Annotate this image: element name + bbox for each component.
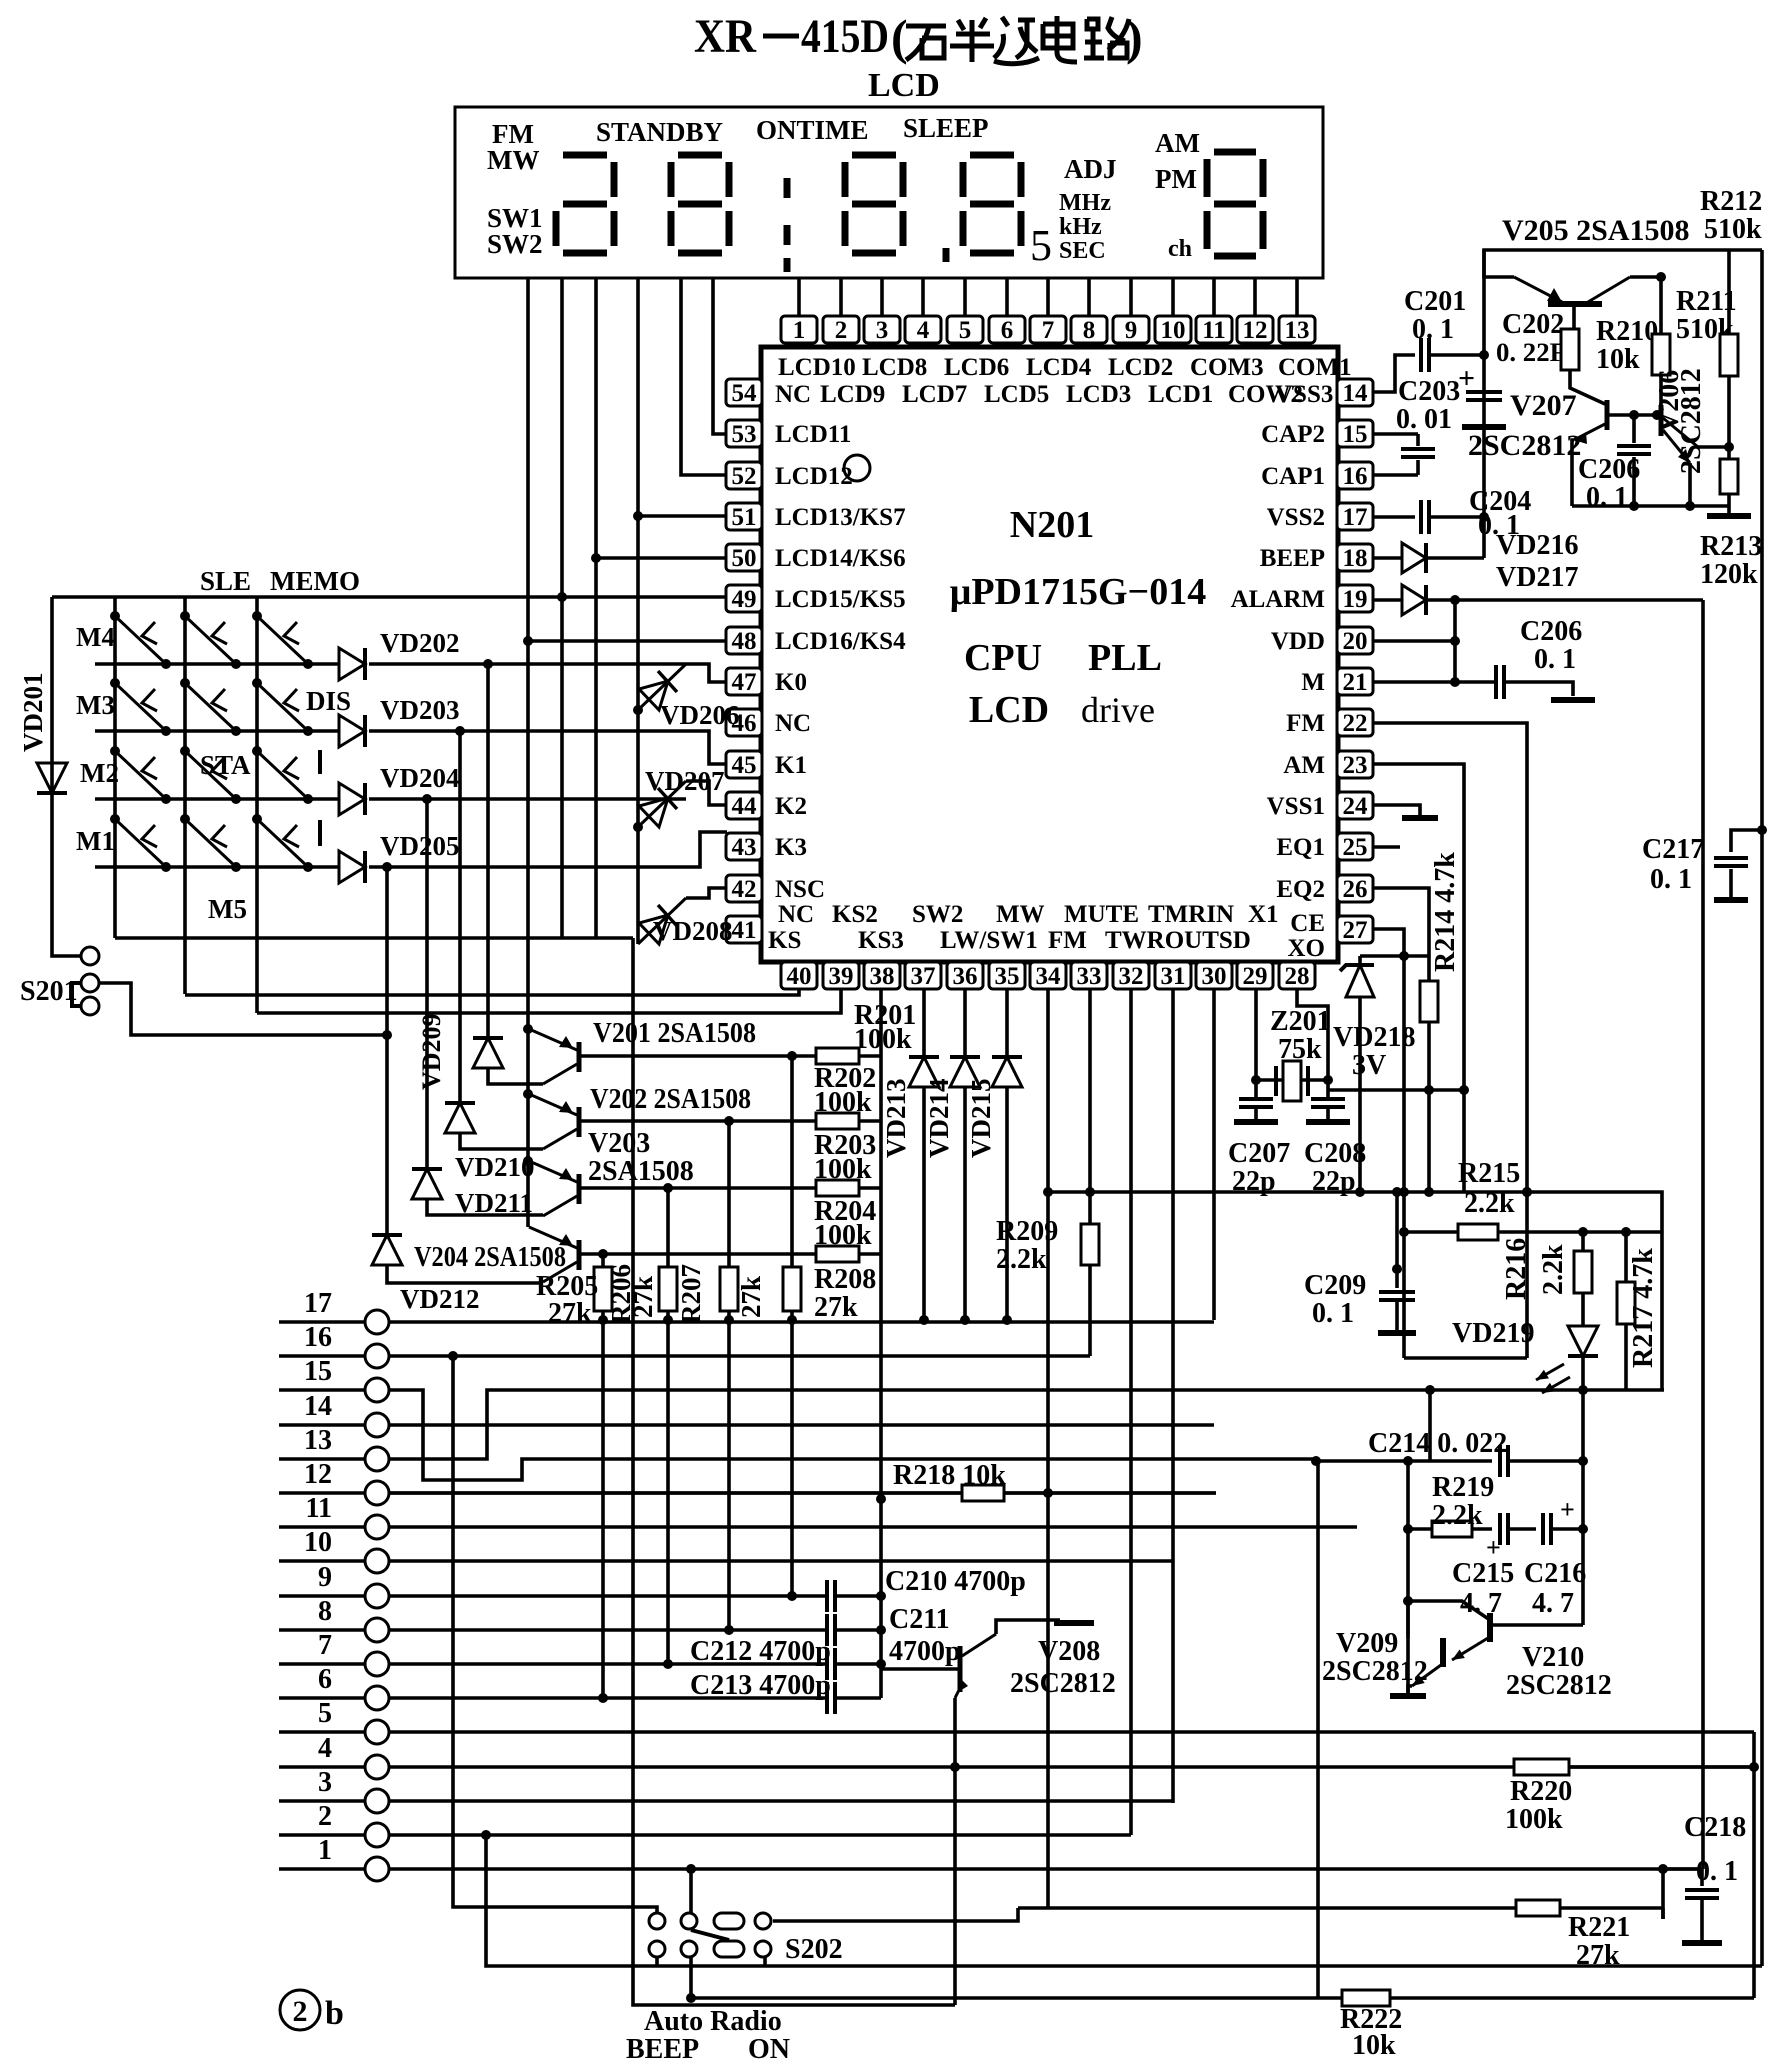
node pin48 junction	[523, 636, 533, 646]
node C216 right	[1578, 1524, 1588, 1534]
svg-text:12: 12	[1243, 317, 1268, 344]
pin 50 box	[726, 544, 762, 572]
svg-text:7: 7	[1042, 317, 1055, 344]
wire LCD to pin 12	[1253, 278, 1257, 316]
svg-text:V209: V209	[1336, 1628, 1398, 1659]
svg-text:V207: V207	[1510, 389, 1577, 422]
wire VD218 stub	[1358, 956, 1362, 965]
connector circle 5	[365, 1720, 389, 1744]
node S202 row1 tap	[686, 1864, 696, 1874]
capacitor C206a	[1617, 446, 1651, 454]
svg-text:V204 2SA1508: V204 2SA1508	[414, 1242, 566, 1273]
resistor R216	[1574, 1251, 1592, 1293]
svg-text:0. 1: 0. 1	[1412, 314, 1454, 345]
node V206 base	[1652, 410, 1662, 420]
wire bus 1192	[1048, 1192, 1662, 1390]
S202 contact circle 689,1921	[681, 1913, 697, 1929]
svg-text:LCD: LCD	[969, 689, 1049, 731]
IC pin52 circle mark	[844, 455, 870, 481]
svg-text:MUTE: MUTE	[1064, 901, 1139, 928]
svg-text:SLE: SLE	[200, 566, 251, 596]
wire C217 bottom	[1729, 869, 1733, 898]
wire pin 27 to VD218	[1372, 929, 1404, 1358]
svg-text:TMRIN: TMRIN	[1148, 901, 1234, 928]
hanzi ban(half)	[950, 18, 994, 62]
svg-text:C208: C208	[1304, 1138, 1366, 1169]
node pin50 junction	[591, 553, 601, 563]
wire matrix row M2	[95, 797, 339, 801]
wire left vertical to S201	[52, 597, 80, 956]
diode VD208	[638, 898, 686, 944]
svg-text:V205 2SA1508: V205 2SA1508	[1502, 214, 1690, 247]
svg-text:27k: 27k	[548, 1298, 592, 1329]
node C214 left	[1403, 1456, 1413, 1466]
svg-text:100k: 100k	[814, 1087, 872, 1118]
wire row 12 right	[389, 1491, 1216, 1495]
svg-text:LCD13/KS7: LCD13/KS7	[775, 504, 906, 531]
svg-text:4: 4	[917, 317, 930, 344]
wire C212 link	[837, 1662, 881, 1666]
svg-text:VD212: VD212	[400, 1284, 480, 1314]
svg-text:415D: 415D	[801, 10, 889, 63]
svg-text:M: M	[1301, 669, 1325, 696]
wire LCD to pin 10	[1171, 278, 1175, 316]
svg-text:R217 4.7k: R217 4.7k	[1628, 1248, 1659, 1368]
capacitor C207	[1239, 1099, 1273, 1107]
svg-text:VSS2: VSS2	[1267, 504, 1325, 531]
wire pin 32 column	[1129, 988, 1133, 1835]
wire R211 R213 column	[1727, 376, 1731, 459]
wire V203 base line	[579, 1186, 816, 1190]
svg-text:R208: R208	[814, 1264, 876, 1295]
svg-text:C214 0. 022: C214 0. 022	[1368, 1428, 1507, 1459]
wire VD210 column	[458, 731, 462, 1103]
pin 52 box	[726, 462, 762, 490]
wire R211 bottom to V206	[1659, 375, 1663, 407]
wire column row16 to S202	[453, 1356, 657, 1913]
capacitor C217 end bar	[1714, 897, 1748, 903]
wire pin 15 stub	[1372, 432, 1418, 436]
wire crystal line	[1256, 1078, 1328, 1082]
node V208 row4	[950, 1762, 960, 1772]
svg-text:28: 28	[1285, 963, 1310, 990]
wire VD211 column	[425, 799, 429, 1169]
svg-text:VD202: VD202	[380, 628, 460, 658]
connector circle 17	[365, 1310, 389, 1334]
transistor V203	[529, 1161, 579, 1216]
node C209 top	[1392, 1264, 1402, 1274]
wire row 17	[279, 1320, 365, 1324]
svg-text:3: 3	[876, 317, 889, 344]
node AM branch	[1459, 1085, 1469, 1095]
pin 26 box	[1337, 875, 1373, 903]
capacitor C201	[1421, 338, 1429, 372]
wire R201 to rail	[859, 1054, 881, 1058]
svg-text:17: 17	[1343, 504, 1368, 531]
pin 29 box	[1237, 962, 1273, 990]
wire V207 emitter down	[1572, 440, 1574, 506]
wire row K1 to pin 45	[369, 731, 727, 764]
svg-text:5: 5	[318, 1698, 332, 1729]
transistor V210 emitter	[1452, 1638, 1488, 1660]
node row16 column	[448, 1351, 458, 1361]
switch col3 row M2 row junction	[303, 794, 313, 804]
wire row 2 right	[389, 1833, 1131, 1837]
transistor V208	[955, 1634, 996, 1698]
svg-text:PLL: PLL	[1088, 637, 1162, 679]
svg-text:22: 22	[1343, 710, 1368, 737]
wire row K3 to pin 43	[369, 832, 727, 867]
svg-text:NSC: NSC	[775, 876, 825, 903]
wire row 16 right	[389, 1354, 1090, 1358]
wire S202 middle column top	[689, 1869, 693, 1913]
wire right edge vertical	[1760, 250, 1764, 1966]
wire pin 48 branch	[528, 639, 727, 643]
capacitor C216	[1543, 1513, 1551, 1545]
wire row 14	[279, 1423, 365, 1427]
svg-text:NC: NC	[775, 381, 811, 408]
transistor V206	[1661, 405, 1698, 463]
svg-text:VD203: VD203	[380, 695, 460, 725]
resistor R205	[594, 1267, 612, 1311]
pin 14 box	[1337, 379, 1373, 407]
wire pin 40 KS line	[185, 988, 799, 995]
svg-text:R207: R207	[676, 1264, 706, 1324]
wire V208 collector	[996, 1620, 1060, 1634]
pin 2 box	[823, 316, 859, 344]
svg-text:R212: R212	[1700, 186, 1762, 217]
wire right col x1754	[1752, 1732, 1756, 1998]
diode VD211	[412, 1169, 442, 1199]
svg-text:LCD7: LCD7	[902, 381, 967, 408]
svg-text:15: 15	[1343, 421, 1368, 448]
svg-text:LCD16/KS4: LCD16/KS4	[775, 628, 906, 655]
svg-text:LCD1: LCD1	[1148, 381, 1213, 408]
svg-text:1: 1	[793, 317, 806, 344]
diode VD216	[1402, 543, 1426, 573]
wire row 7	[279, 1662, 365, 1666]
switch col3 row M3 junction	[252, 678, 262, 688]
svg-text:V208: V208	[1038, 1636, 1100, 1667]
wire VD218 anode down to bus	[1358, 997, 1362, 1192]
wire VD208 to pin 42	[686, 888, 727, 898]
svg-text:C207: C207	[1228, 1138, 1290, 1169]
switch col1 row M3 junction	[110, 678, 120, 688]
svg-text:K1: K1	[775, 752, 807, 779]
pin 46 box	[726, 709, 762, 737]
wire row 1	[279, 1867, 365, 1871]
svg-text:R214 4.7k: R214 4.7k	[1430, 852, 1461, 972]
svg-text:M2: M2	[80, 758, 119, 788]
svg-text:LCD8: LCD8	[862, 354, 927, 381]
transistor V210	[1487, 1613, 1493, 1642]
wire x1318 column	[1316, 1461, 1320, 1998]
svg-text:29: 29	[1243, 963, 1268, 990]
resistor R221	[1516, 1900, 1560, 1916]
wire pin 20 stub	[1372, 639, 1455, 643]
pin 49 box	[726, 585, 762, 613]
wire R222 line	[691, 1996, 1342, 2000]
svg-text:2.2k: 2.2k	[996, 1244, 1047, 1275]
svg-text:5: 5	[959, 317, 972, 344]
wire x1584 bottom	[1581, 1529, 1585, 1625]
switch col2 row M3 junction	[180, 678, 190, 688]
node pin49 junction	[557, 592, 567, 602]
wire row 5 right	[389, 1730, 1754, 1734]
node bus VD218	[1355, 1187, 1365, 1197]
connector circle 1	[365, 1857, 389, 1881]
zener VD218	[1340, 965, 1374, 997]
wire V206 collector	[1698, 445, 1729, 449]
pin 11 box	[1196, 316, 1232, 344]
wire VD212 column	[385, 867, 389, 1235]
switch col1 row M4 junction	[110, 611, 120, 621]
svg-text:100k: 100k	[854, 1024, 912, 1055]
svg-text:C216: C216	[1524, 1558, 1586, 1589]
resistor R220	[1514, 1759, 1569, 1775]
wire emitter bus	[1572, 504, 1729, 508]
svg-text:COM1: COM1	[1278, 354, 1352, 381]
node C204	[1479, 512, 1489, 522]
figure mark circle 2	[280, 1990, 344, 2032]
wire C218 bottom	[1700, 1899, 1704, 1941]
svg-text:C213 4700p: C213 4700p	[690, 1670, 831, 1701]
svg-text:LCD: LCD	[868, 67, 940, 104]
svg-text:16: 16	[304, 1322, 332, 1353]
wire VD213 to row17	[922, 1087, 926, 1320]
svg-text:SW2: SW2	[487, 229, 543, 259]
svg-text:KS2: KS2	[832, 901, 878, 928]
node pin21	[1450, 677, 1460, 687]
connector circle 11	[365, 1515, 389, 1539]
switch col3 row M1 row junction	[303, 862, 313, 872]
svg-text:2.2k: 2.2k	[1538, 1244, 1569, 1295]
svg-text:VD214: VD214	[924, 1079, 954, 1159]
node row17 R205	[598, 1315, 608, 1325]
node row17 VD215	[1002, 1315, 1012, 1325]
wire pin 23 AM line	[1372, 764, 1464, 1192]
node row12 pin34	[1043, 1488, 1053, 1498]
wire R208 column	[790, 1056, 794, 1596]
svg-text:S202: S202	[785, 1934, 843, 1965]
wire R207 column	[727, 1121, 731, 1630]
pin 19 box	[1337, 585, 1373, 613]
wire LCD to pin 7	[1046, 278, 1050, 316]
svg-text:LCD4: LCD4	[1026, 354, 1092, 381]
wire R206 column	[666, 1188, 670, 1664]
wire R216 col down to C214	[1581, 1390, 1585, 1461]
switch col1 row M1	[115, 819, 166, 867]
wire LCD to pin 2	[839, 278, 843, 316]
wire matrix row M1	[95, 865, 339, 869]
resistor R217	[1617, 1282, 1635, 1324]
wire V205 node vertical	[1484, 250, 1762, 355]
svg-text:SLEEP: SLEEP	[903, 113, 989, 143]
svg-text:4700p: 4700p	[889, 1636, 961, 1667]
wire VD219 to node line	[1581, 1356, 1585, 1390]
svg-text:R216: R216	[1501, 1238, 1532, 1300]
svg-text:17: 17	[304, 1288, 332, 1319]
svg-text:VSS1: VSS1	[1267, 793, 1325, 820]
resistor R219	[1432, 1521, 1472, 1537]
capacitor C215	[1500, 1513, 1508, 1545]
title dash	[763, 34, 799, 39]
node C214 far left	[1311, 1456, 1321, 1466]
connector circle 8	[365, 1618, 389, 1642]
node row8 R207col	[724, 1625, 734, 1635]
wire pin 21 M line	[1372, 680, 1455, 684]
svg-text:C215: C215	[1452, 1558, 1514, 1589]
pin 21 box	[1337, 668, 1373, 696]
svg-text:drive: drive	[1081, 690, 1155, 730]
wire R217 column	[1624, 1232, 1628, 1282]
wire VD207 to pin 44	[686, 781, 727, 805]
svg-text:PM: PM	[1155, 164, 1197, 194]
pin 34 box	[1030, 962, 1066, 990]
svg-text:V202 2SA1508: V202 2SA1508	[590, 1084, 751, 1115]
svg-text:ALARM: ALARM	[1231, 586, 1325, 613]
node R208 top	[787, 1051, 797, 1061]
wire pin 38 rail	[879, 988, 883, 1698]
wire S202 bottom left stub	[655, 1957, 659, 1966]
svg-text:50: 50	[732, 545, 757, 572]
wire matrix M5 column down	[633, 938, 955, 2005]
connector circle 4	[365, 1755, 389, 1779]
wire row 13	[279, 1457, 365, 1461]
svg-text:(: (	[891, 9, 908, 65]
svg-text:16: 16	[1343, 463, 1368, 490]
S202 contact circle 689,1949	[681, 1941, 697, 1957]
wire matrix row M3	[95, 729, 339, 733]
wire row 8	[279, 1628, 365, 1632]
capacitor C209 end bar	[1378, 1330, 1416, 1336]
node row17 VD214	[960, 1315, 970, 1325]
svg-text:6: 6	[1001, 317, 1014, 344]
node R214 AM crossing	[1424, 1085, 1434, 1095]
pin 5 box	[947, 316, 983, 344]
svg-text:V210: V210	[1522, 1642, 1584, 1673]
wire row 15 jog	[389, 1390, 1316, 1480]
svg-text:C212 4700p: C212 4700p	[690, 1636, 831, 1667]
svg-text:51: 51	[732, 504, 757, 531]
led VD219	[1568, 1326, 1598, 1356]
wire C204 to node	[1431, 515, 1484, 519]
diode VD204	[339, 783, 365, 815]
node VD202 row junction K0	[483, 659, 493, 669]
wire VD209 column	[486, 663, 490, 1038]
svg-text:8: 8	[1083, 317, 1096, 344]
svg-text:M3: M3	[76, 690, 115, 720]
wire C208 stub	[1326, 1080, 1330, 1099]
svg-text:R209: R209	[996, 1216, 1058, 1247]
transistor V204	[529, 1227, 579, 1282]
svg-text:+: +	[1560, 1495, 1575, 1524]
S201 contact circle bot	[81, 997, 99, 1015]
connector circle 12	[365, 1481, 389, 1505]
switch col1 row M3 row junction	[161, 726, 171, 736]
node C209 bus	[1392, 1187, 1402, 1197]
wire VD207 column	[636, 710, 640, 944]
pin 39 box	[823, 962, 859, 990]
capacitor C202 bottom plate	[1462, 424, 1506, 430]
svg-text:C209: C209	[1304, 1270, 1366, 1301]
resistor R215	[1458, 1224, 1498, 1240]
wire R202 to rail	[859, 1119, 881, 1123]
svg-text:LCD9: LCD9	[820, 381, 885, 408]
svg-text:MW: MW	[487, 145, 539, 175]
svg-text:C202: C202	[1502, 309, 1564, 340]
svg-text:S201: S201	[20, 976, 78, 1007]
switch col2 row M1 row junction	[231, 862, 241, 872]
pin 28 box	[1279, 962, 1315, 990]
svg-text:BEEP: BEEP	[626, 2034, 699, 2065]
wire matrix column 1	[113, 597, 117, 938]
wire row 4	[279, 1765, 365, 1769]
svg-text:M4: M4	[76, 622, 115, 652]
svg-text:120k: 120k	[1700, 559, 1758, 590]
diode VD215	[992, 1057, 1022, 1087]
S202 contact circle right 1949	[755, 1941, 771, 1957]
switch col1 row M2 junction	[110, 746, 120, 756]
resistor R203	[816, 1180, 859, 1196]
wire C215 to C216	[1510, 1527, 1536, 1531]
wire row 6	[279, 1696, 365, 1700]
wire row 14 right	[389, 1423, 1214, 1427]
svg-text:K3: K3	[775, 834, 807, 861]
svg-text:20: 20	[1343, 628, 1368, 655]
svg-text:21: 21	[1343, 669, 1368, 696]
node pin20	[1450, 636, 1460, 646]
wire S202 top right line	[773, 1908, 1018, 1921]
svg-text:19: 19	[1343, 586, 1368, 613]
wire pin 36 column	[963, 988, 967, 1057]
wire VD211 to V203 collector	[427, 1199, 543, 1215]
svg-text:): )	[1126, 9, 1143, 65]
wire row4 to right col	[1569, 1765, 1754, 1769]
ground V209	[1390, 1693, 1426, 1699]
pin 54 box	[726, 379, 762, 407]
connector circle 6	[365, 1686, 389, 1710]
resistor R222	[1342, 1990, 1390, 2006]
connector circle 14	[365, 1413, 389, 1437]
svg-text:CPU: CPU	[964, 637, 1042, 679]
wire row 10	[279, 1559, 365, 1563]
wire R204 to rail	[859, 1252, 881, 1256]
switch col3 row M1 junction	[252, 814, 262, 824]
switch col3 row M1	[257, 819, 308, 867]
wire pin 31 column	[1171, 988, 1175, 1803]
node VD205 row junction	[382, 862, 392, 872]
svg-text:100k: 100k	[814, 1154, 872, 1185]
svg-text:6: 6	[318, 1664, 332, 1695]
transistor V209	[1440, 1638, 1446, 1667]
node rail V203	[523, 1156, 533, 1166]
wire VD215 to row17	[1005, 1087, 1009, 1320]
wire V202 base line	[579, 1119, 816, 1123]
capacitor C206b	[1496, 665, 1504, 699]
svg-text:4. 7: 4. 7	[1532, 1588, 1574, 1619]
resistor R206	[659, 1267, 677, 1311]
svg-text:10k: 10k	[1596, 344, 1640, 375]
node R207 top	[724, 1116, 734, 1126]
hanzi dian(electric)	[1043, 16, 1077, 62]
wire LCD to pin 9	[1129, 278, 1133, 316]
svg-text:BEEP: BEEP	[1260, 545, 1325, 572]
wire 1390 to C214	[1428, 1390, 1432, 1461]
connector circle 15	[365, 1378, 389, 1402]
ground R213	[1707, 513, 1751, 519]
svg-text:23: 23	[1343, 752, 1368, 779]
